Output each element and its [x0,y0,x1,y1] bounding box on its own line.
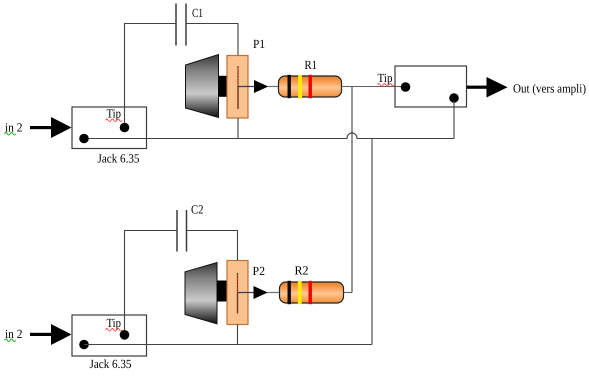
svg-text:Jack 6.35: Jack 6.35 [90,357,132,371]
svg-text:R1: R1 [305,58,318,72]
resistor R1 [279,75,342,98]
ground wire bottom [84,344,372,346]
svg-text:Tip: Tip [107,107,122,121]
svg-text:Tip: Tip [378,71,393,85]
ground wire top [84,133,454,139]
wire jack1 tip to C1 [125,24,177,125]
svg-text:P2: P2 [253,264,266,278]
svg-text:Tip: Tip [107,316,122,330]
potentiometer P2 [185,261,268,325]
wire wiper to R2 [267,292,280,294]
svg-text:Out (vers ampli): Out (vers ampli) [513,82,586,96]
svg-text:Jack 6.35: Jack 6.35 [98,152,140,166]
capacitor C2 [177,210,187,252]
wire output jack sleeve down [453,101,455,139]
wire jack2 tip to C2 [125,231,178,332]
squiggle under Tip jack1 [106,119,123,122]
input arrow top [30,117,72,138]
wire wiper to R1 [268,86,279,88]
squiggle under Tip jack2 [106,329,123,332]
wire P1 bottom [237,118,239,139]
svg-text:C2: C2 [191,203,204,217]
output arrow [467,77,508,98]
resistor R2 [280,281,344,304]
svg-text:in 2: in 2 [5,327,23,341]
wire mix junction R1 to R2 [351,87,353,293]
wire C1 to P1 [186,24,238,57]
svg-text:P1: P1 [253,37,265,51]
capacitor C1 [176,4,186,46]
svg-text:C1: C1 [192,6,203,20]
squiggle under Tip output [378,84,395,87]
jack J1 input [72,107,147,149]
wire R2 right to junction [344,292,353,294]
squiggle under in top [5,133,16,136]
squiggle under in bottom [5,339,16,342]
output jack [395,66,467,107]
wire P2 bottom [237,325,239,345]
svg-text:in 2: in 2 [5,121,23,135]
jack J2 input [72,315,147,356]
wire R1 to output jack tip [342,86,406,88]
wire ground drop to bottom [371,139,373,345]
svg-text:R2: R2 [295,264,309,278]
input arrow bottom [30,324,72,345]
wire C2 to P2 [187,231,238,262]
potentiometer P1 [186,55,269,119]
